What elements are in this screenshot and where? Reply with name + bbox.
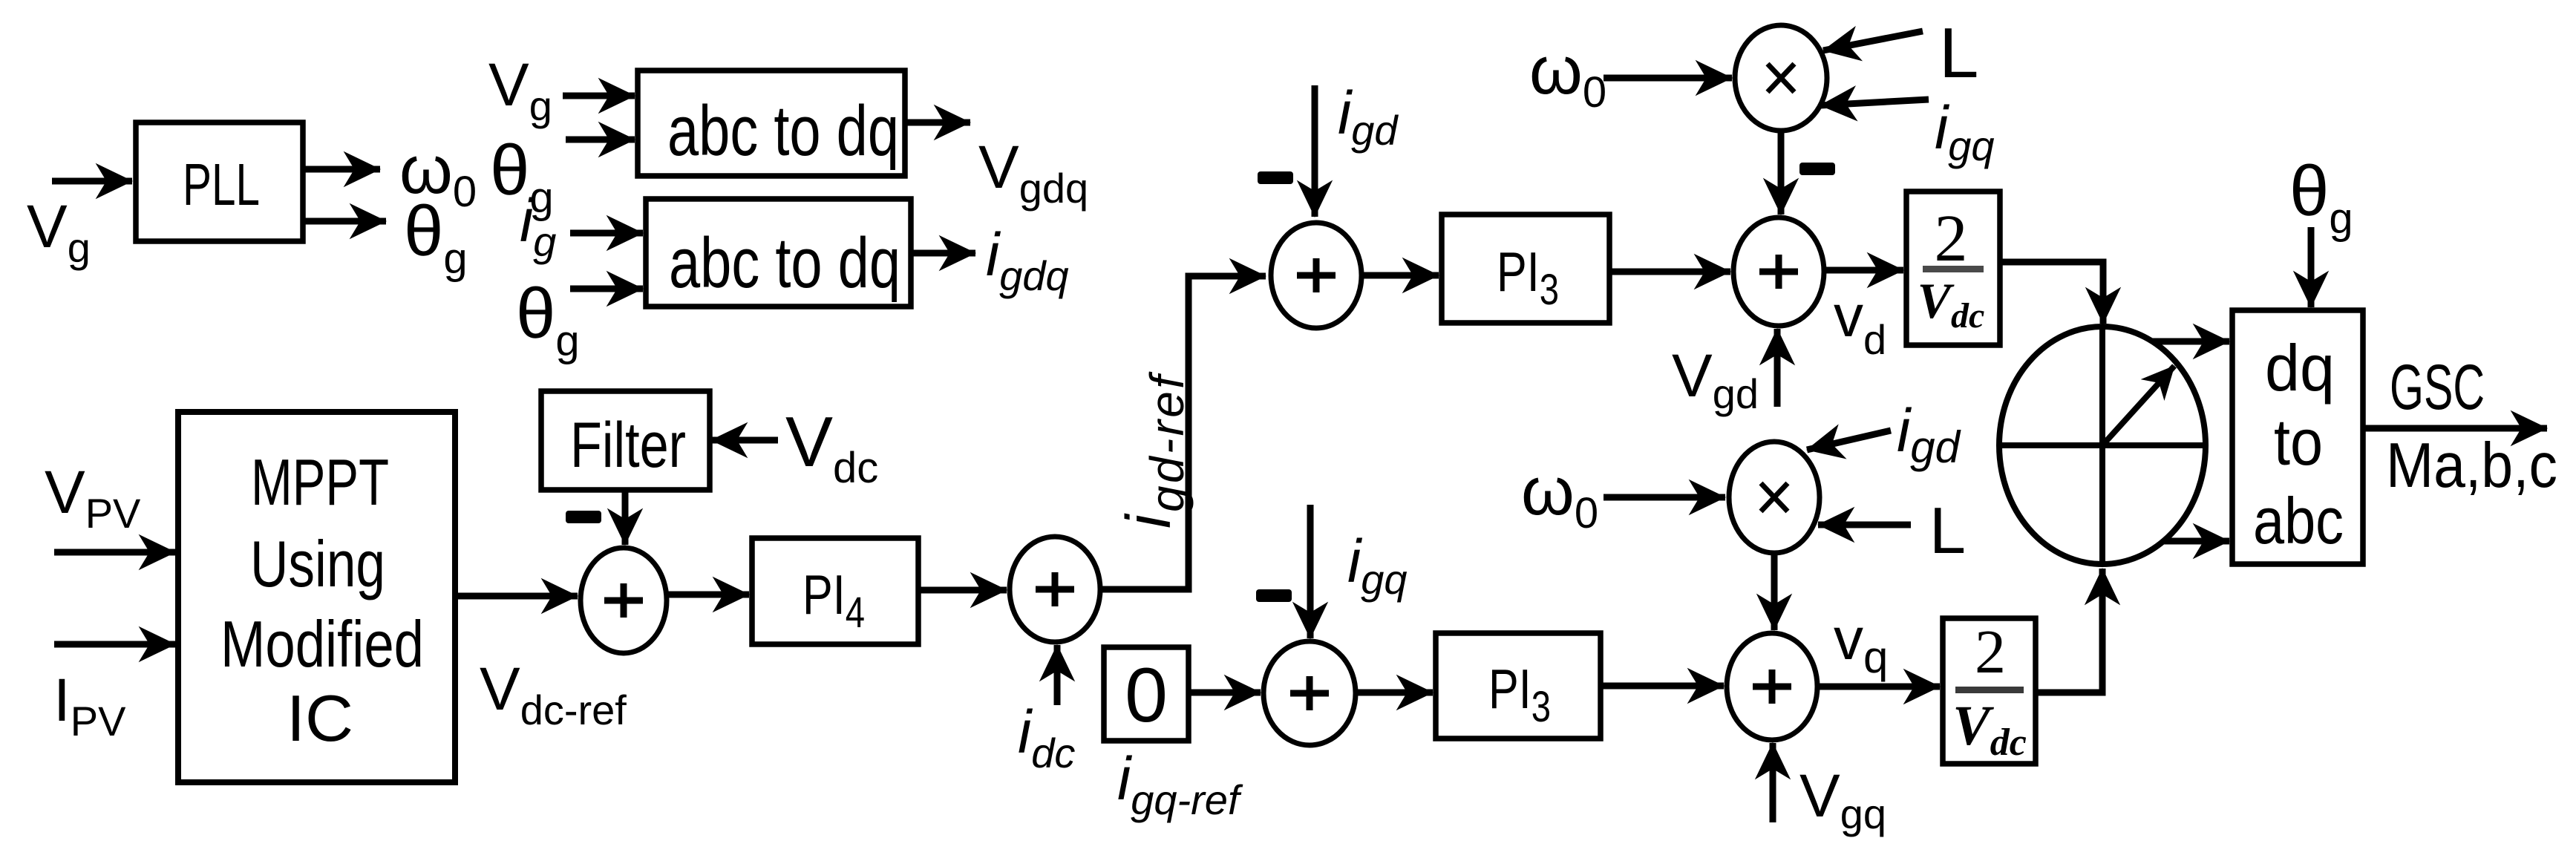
- wire mult2 to sum6: [1771, 553, 1778, 630]
- wire sum3 to PI3a: [1361, 272, 1439, 279]
- wire Vgdq out: [905, 120, 970, 126]
- minus sign at sum1: [566, 511, 601, 523]
- wire igq down to sum5: [1307, 505, 1314, 638]
- multiplier mult1: [1735, 25, 1827, 131]
- wire L to mult1: [1823, 31, 1923, 50]
- wire Vgd to sum4: [1774, 329, 1781, 407]
- wire Filter to sum1: [622, 490, 629, 545]
- wire idc to sum2: [1054, 645, 1061, 705]
- block MPPT: [178, 412, 455, 782]
- summing junction sum1: [581, 548, 667, 653]
- wire IPV to MPPT: [54, 641, 175, 648]
- block gain 2/Vdc lower: [1943, 618, 2036, 764]
- wire PLL out thg: [303, 218, 386, 225]
- svg-text:IC: IC: [287, 681, 353, 755]
- wire omega0 to mult2: [1604, 494, 1725, 501]
- wire sum1 to PI4: [667, 592, 749, 598]
- svg-text:abc to dq: abc to dq: [669, 223, 900, 303]
- wire sum5 to PI3b: [1356, 690, 1433, 696]
- wire thetag to abcdq2: [570, 286, 643, 292]
- wire sum6 to gain2: [1817, 684, 1940, 690]
- wire Vdc to Filter: [711, 437, 778, 444]
- wire Vg to PLL: [52, 178, 132, 185]
- svg-text:PLL: PLL: [183, 151, 260, 217]
- wire sum4 to gain1: [1824, 267, 1903, 274]
- wire mult1 to sum4: [1778, 131, 1785, 215]
- svg-text:Filter: Filter: [570, 410, 686, 481]
- wire VPV to MPPT: [54, 549, 175, 556]
- wire L to mult2: [1818, 522, 1911, 528]
- wire igd down to sum3: [1312, 85, 1318, 217]
- svg-text:L: L: [1939, 13, 1978, 93]
- wire modulator to dqabc upper: [2152, 338, 2229, 345]
- block PI3 upper: [1442, 215, 1609, 323]
- wire gain1 to modulator: [2000, 262, 2103, 324]
- wire modulator to dqabc lower: [2163, 538, 2229, 545]
- minus sign at sum5: [1256, 589, 1292, 602]
- svg-text:Using: Using: [250, 527, 385, 600]
- block PI3 lower: [1436, 633, 1601, 739]
- wire dqabc output: [2363, 425, 2547, 432]
- wire sum2 to sum3 igd-ref path: [1100, 276, 1266, 589]
- wire Vg to abcdq1: [563, 93, 635, 99]
- svg-text:0: 0: [1125, 652, 1168, 739]
- wire PI4 to sum2: [918, 587, 1007, 594]
- wire gain2 to modulator: [2036, 569, 2102, 693]
- svg-text:GSC: GSC: [2390, 352, 2485, 423]
- wire ig to abcdq2: [570, 230, 643, 237]
- svg-text:Ma,b,c: Ma,b,c: [2386, 430, 2557, 501]
- block gain 2/Vdc upper: [1906, 191, 2000, 345]
- wire omega0 to mult1: [1604, 75, 1732, 82]
- wire Vgq to sum6: [1770, 743, 1776, 822]
- block PI4: [752, 538, 918, 644]
- summing junction sum3: [1271, 223, 1361, 328]
- svg-text:abc to dq: abc to dq: [667, 91, 899, 171]
- minus sign at sum4: [1799, 163, 1835, 175]
- svg-text:to: to: [2274, 405, 2323, 479]
- multiplier mult2: [1729, 442, 1820, 553]
- wire igdq out: [911, 250, 975, 257]
- wire PLL out w0: [303, 166, 380, 173]
- summing junction sum5: [1264, 641, 1356, 745]
- minus sign at sum3: [1258, 171, 1293, 184]
- block zero ref: [1104, 647, 1189, 741]
- wire PI3a to sum4: [1609, 269, 1730, 275]
- summing junction sum2: [1010, 537, 1100, 642]
- block dq to abc: [2232, 310, 2363, 564]
- svg-text:MPPT: MPPT: [251, 445, 389, 519]
- wire igq to mult1: [1820, 99, 1929, 105]
- svg-text:Modified: Modified: [220, 607, 424, 681]
- wire zero to sum5: [1189, 690, 1261, 696]
- block abc to dq upper: [638, 71, 905, 176]
- wire thetag to abcdq1: [566, 137, 635, 143]
- svg-text:2: 2: [1975, 618, 2006, 687]
- wire igd to mult2: [1807, 430, 1891, 450]
- svg-text:abc: abc: [2253, 484, 2344, 557]
- wire MPPT to sum1: [455, 593, 578, 600]
- modulator phasor arrow: [2102, 366, 2174, 445]
- summing junction sum4: [1733, 217, 1824, 326]
- block PLL: [136, 122, 303, 241]
- svg-text:L: L: [1929, 494, 1966, 567]
- wire PI3b to sum6: [1601, 683, 1724, 690]
- summing junction sum6: [1727, 633, 1817, 740]
- block Filter: [541, 391, 710, 490]
- modulator circle: [1999, 327, 2206, 564]
- svg-text:2: 2: [1935, 202, 1968, 275]
- wire thetag to dqabc: [2308, 227, 2315, 307]
- block abc to dq lower: [646, 199, 911, 307]
- svg-text:dq: dq: [2265, 331, 2335, 405]
